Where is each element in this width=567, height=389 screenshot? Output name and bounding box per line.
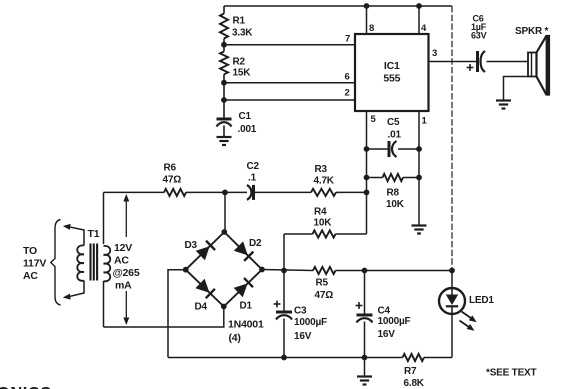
svg-text:4: 4 [421, 23, 427, 34]
LED LED1 [439, 271, 494, 358]
svg-text:@265: @265 [113, 267, 140, 279]
svg-text:.1: .1 [248, 173, 257, 184]
capacitor C1 [217, 111, 257, 135]
wire R4 to C3 node [283, 234, 285, 271]
node C3 bottom junction [281, 355, 287, 361]
wire C1 to ground [223, 126, 225, 138]
svg-text:C3: C3 [294, 306, 307, 317]
brace 117V primary [51, 220, 61, 306]
wire pin 3 to C6 [429, 61, 477, 63]
wire node to bridge top [224, 192, 226, 232]
svg-text:3: 3 [432, 48, 437, 59]
svg-text:R5: R5 [316, 278, 329, 289]
capacitor C6 [467, 14, 487, 73]
transformer T1 core [91, 244, 98, 281]
node pin2 junction [221, 97, 227, 103]
svg-text:1000µF: 1000µF [294, 317, 327, 328]
svg-text:1N4001: 1N4001 [228, 319, 264, 331]
resistor R7 [403, 354, 425, 389]
svg-text:8: 8 [369, 23, 374, 34]
svg-text:117V: 117V [23, 258, 46, 270]
capacitor C5 [367, 117, 420, 157]
svg-text:2: 2 [345, 88, 350, 99]
node R8 left junction [364, 175, 370, 181]
svg-text:15K: 15K [233, 68, 252, 79]
node C5 left junction [364, 146, 370, 152]
wire R1 to R2 [223, 39, 225, 52]
wire R2 to pin6 node [223, 74, 225, 100]
wire pin 6 [224, 82, 355, 84]
svg-text:63V: 63V [471, 31, 487, 41]
svg-text:3.3K: 3.3K [232, 28, 253, 39]
resistor R3 [311, 164, 336, 196]
svg-text:R2: R2 [233, 57, 246, 68]
node bridge left corner [183, 267, 189, 273]
ground speaker [496, 99, 511, 101]
svg-text:12V: 12V [114, 242, 132, 254]
node C3 top junction [281, 268, 287, 274]
diode D1 [234, 278, 253, 312]
wire R6 to C2 node [186, 191, 247, 193]
wire pin 8 [366, 6, 368, 34]
svg-text:SPKR *: SPKR * [515, 26, 549, 37]
label 1N4001 (4) [228, 319, 264, 345]
capacitor C4 [356, 271, 411, 358]
resistor R6 [163, 163, 187, 197]
svg-text:R6: R6 [164, 163, 177, 174]
svg-text:.001: .001 [238, 124, 257, 135]
wire R5 to V+ node [336, 270, 453, 272]
annotation 12V AC secondary arrow [123, 194, 129, 325]
svg-text:R3: R3 [315, 164, 328, 175]
op-amp U1 IC1 555 box [355, 34, 429, 111]
capacitor C2 [247, 161, 260, 200]
svg-text:AC: AC [114, 255, 129, 267]
svg-text:(4): (4) [229, 332, 241, 344]
svg-text:16V: 16V [378, 329, 396, 340]
svg-text:LED1: LED1 [469, 295, 494, 306]
diode D4 [195, 279, 215, 313]
node R8 right junction [416, 175, 422, 181]
resistor R1 [220, 6, 253, 39]
wire C4 node to ground [364, 358, 366, 377]
ground C1 [217, 136, 232, 138]
node C2 junction [222, 190, 228, 196]
wire primary top lead [66, 226, 84, 245]
wire V+ right vertical [451, 6, 453, 271]
node pin8 rail junction [364, 3, 370, 9]
wire C2 to R3 [254, 191, 312, 193]
ground pin1 [412, 224, 427, 226]
wire bridge left to ground rail [168, 270, 186, 358]
label TO 117V AC [23, 245, 46, 282]
svg-text:T1: T1 [88, 228, 100, 240]
node bridge bottom corner [221, 304, 227, 310]
label 12V AC @265 mA [113, 242, 140, 292]
svg-text:4.7K: 4.7K [314, 176, 335, 187]
svg-text:D3: D3 [185, 240, 198, 251]
svg-text:*SEE TEXT: *SEE TEXT [486, 368, 537, 379]
wire secondary bottom lead [103, 281, 105, 327]
wire bridge right to R5 [262, 270, 313, 271]
wire R7 to LED [424, 357, 452, 359]
svg-text:D2: D2 [249, 238, 262, 249]
svg-text:AC: AC [23, 270, 38, 282]
diode D3 [185, 240, 216, 260]
wire pin2 node to C1 [223, 100, 225, 119]
svg-text:16V: 16V [294, 331, 312, 342]
svg-text:D4: D4 [195, 302, 208, 313]
wire pin 2 [224, 99, 355, 101]
svg-text:R7: R7 [404, 366, 417, 377]
resistor R4 [284, 207, 367, 238]
svg-text:47Ω: 47Ω [163, 175, 182, 186]
wire secondary top lead [103, 192, 105, 244]
svg-text:C1: C1 [239, 111, 252, 122]
node C5 right junction [416, 146, 422, 152]
wire ground rail left [168, 357, 403, 359]
transformer T1 primary winding [77, 245, 84, 280]
node C4 bottom junction [362, 355, 368, 361]
wire top V+ rail [224, 5, 452, 7]
diode D2 [234, 238, 262, 261]
svg-text:555: 555 [383, 73, 400, 85]
wire bridge top-right edge [224, 232, 262, 270]
svg-text:.01: .01 [388, 130, 402, 141]
speaker SPKR [515, 26, 549, 95]
wire bridge bottom to transformer [104, 307, 224, 328]
resistor R8 [367, 174, 420, 210]
wire bridge top-left edge [186, 232, 225, 270]
svg-text:7: 7 [345, 34, 350, 45]
transformer T1 secondary winding [104, 246, 111, 281]
svg-text:10K: 10K [314, 218, 333, 229]
wire pin 5 column [366, 111, 368, 234]
wire R3 to pin5 node [336, 191, 367, 193]
svg-text:IC1: IC1 [384, 60, 400, 72]
wire speaker return [504, 77, 529, 101]
wire bridge bottom-right edge [224, 270, 262, 307]
wire pin 7 [224, 44, 355, 46]
svg-text:47Ω: 47Ω [315, 290, 334, 301]
wire primary bottom lead [66, 281, 84, 298]
resistor R5 [313, 267, 336, 301]
svg-text:TO: TO [23, 245, 37, 257]
node C4 top junction [362, 268, 368, 274]
node pin6 junction [221, 80, 227, 86]
ground main [357, 375, 372, 377]
node pin7 junction [221, 42, 227, 48]
node R3 pin5 junction [364, 190, 370, 196]
svg-text:D1: D1 [240, 301, 253, 312]
svg-text:6.8K: 6.8K [404, 378, 425, 389]
LED emission arrows [460, 312, 477, 331]
svg-text:R4: R4 [314, 207, 327, 218]
svg-text:5: 5 [371, 114, 377, 125]
svg-text:R8: R8 [387, 188, 400, 199]
node bridge right corner [259, 267, 265, 273]
svg-text:1: 1 [422, 116, 428, 127]
svg-text:R1: R1 [233, 16, 246, 27]
svg-text:ONICS: ONICS [0, 385, 52, 389]
wire C6 to speaker [487, 61, 529, 63]
node pin4 rail junction [416, 3, 422, 9]
wire bridge bottom-left edge [186, 270, 224, 307]
wire pin 4 [418, 6, 420, 34]
svg-text:10K: 10K [386, 199, 405, 210]
capacitor C3 [274, 271, 327, 358]
resistor R2 [220, 52, 251, 79]
svg-text:C5: C5 [387, 117, 400, 128]
svg-text:mA: mA [115, 280, 132, 292]
svg-text:C2: C2 [247, 161, 260, 172]
svg-text:6: 6 [345, 72, 350, 83]
wire secondary to R6 [104, 191, 165, 193]
wire pin 1 column [418, 111, 420, 226]
node LED V+ junction [449, 268, 455, 274]
svg-text:C4: C4 [378, 306, 391, 317]
node bridge top corner [221, 229, 227, 235]
svg-text:1000µF: 1000µF [378, 316, 411, 327]
